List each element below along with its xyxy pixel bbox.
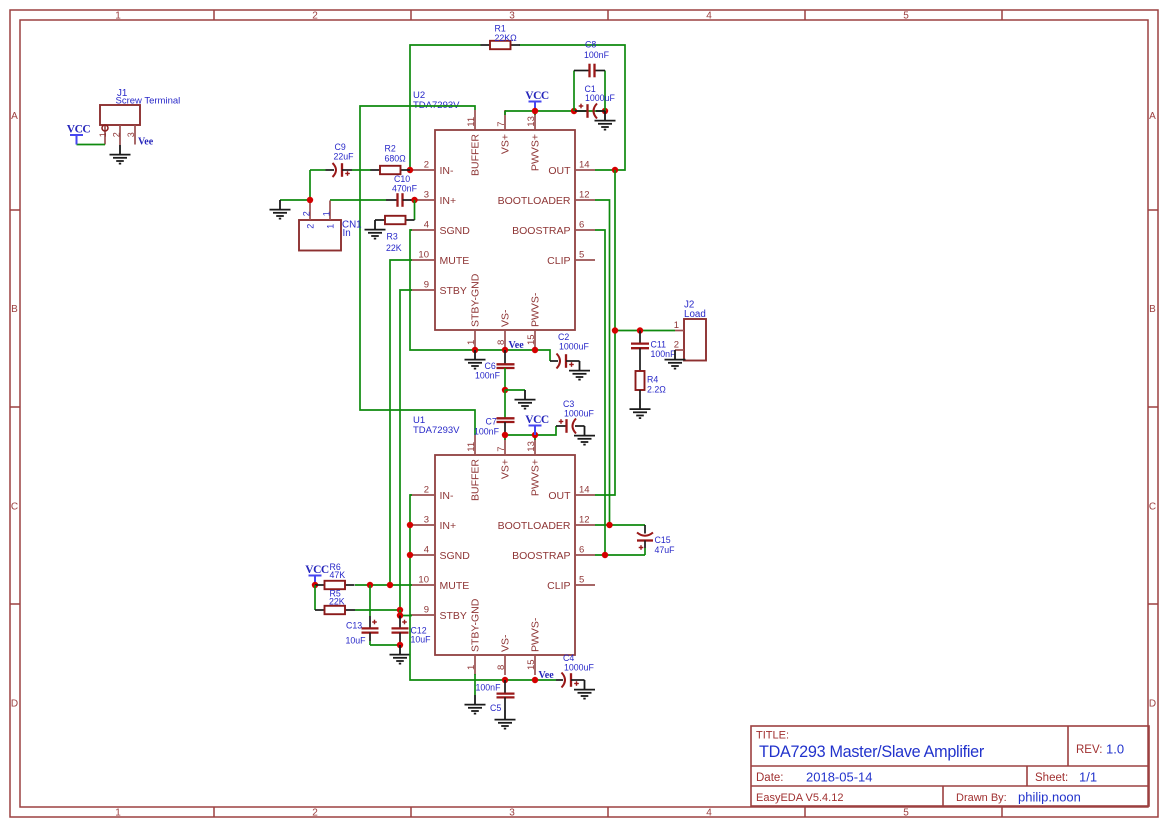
junction C1- node (602, 108, 608, 114)
svg-text:REV:: REV: (1076, 744, 1102, 756)
svg-text:R3: R3 (387, 232, 398, 242)
svg-text:C15: C15 (655, 535, 671, 545)
svg-text:11: 11 (466, 442, 477, 452)
svg-text:A: A (1149, 111, 1156, 122)
pin 14 OUT of U2 (548, 160, 595, 177)
svg-text:VS-: VS- (500, 634, 512, 652)
svg-text:470nF: 470nF (392, 184, 418, 194)
svg-text:1: 1 (674, 320, 679, 331)
wire STBY drop to U1 pin9 (400, 610, 412, 616)
wire IN+ from CN1 (330, 199, 386, 201)
pin 6 BOOSTRAP of U1 (512, 545, 595, 562)
pin 8 VS- of U2 (496, 309, 512, 350)
pin 13 PWVS+ of U2 (526, 110, 542, 171)
capacitor C11 100nF (631, 331, 676, 372)
wire R5 to STBY node (355, 609, 400, 611)
junction C13 top node (367, 582, 373, 588)
svg-text:TITLE:: TITLE: (756, 730, 789, 742)
svg-text:100nF: 100nF (584, 50, 610, 60)
wire Vee to ground (505, 389, 525, 391)
svg-text:47K: 47K (330, 570, 346, 580)
svg-text:SGND: SGND (440, 550, 471, 562)
svg-text:BOOTLOADER: BOOTLOADER (498, 520, 571, 532)
wire VCC net U2 (505, 110, 605, 112)
svg-text:1/1: 1/1 (1079, 770, 1097, 785)
svg-text:14: 14 (579, 485, 590, 496)
capacitor C5 100nF (476, 680, 515, 713)
svg-text:C7: C7 (486, 417, 497, 427)
title block (751, 726, 1149, 806)
svg-text:PWVS+: PWVS+ (530, 459, 542, 496)
junction R5-STBY node (397, 607, 403, 613)
wire U1 pin7 link (504, 435, 506, 440)
pin 7 VS+ of U2 (496, 110, 512, 154)
pin 1 STBY-GND of U1 (466, 598, 482, 675)
svg-text:2: 2 (306, 224, 316, 229)
svg-text:10uF: 10uF (411, 635, 432, 645)
pin 11 BUFFER of U1 (466, 435, 482, 501)
svg-text:PWVS-: PWVS- (530, 292, 542, 327)
capacitor C8 100nF (574, 40, 610, 78)
pin 3 of J1 (126, 125, 136, 145)
svg-text:2: 2 (424, 160, 429, 171)
capacitor C10 470nF (386, 174, 418, 207)
svg-text:1000uF: 1000uF (559, 342, 589, 352)
svg-text:TDA7293V: TDA7293V (413, 425, 460, 436)
resistor R5 22K (315, 589, 355, 615)
wire SGND-STBYGND net U2 (410, 230, 475, 350)
svg-text:C9: C9 (335, 142, 346, 152)
pin 8 VS- of U1 (496, 634, 512, 675)
wire MUTE net (390, 260, 412, 585)
svg-text:12: 12 (579, 190, 590, 201)
pin 5 CLIP of U2 (547, 250, 595, 267)
svg-text:Load: Load (684, 309, 706, 320)
svg-text:In: In (343, 228, 351, 239)
wire OUT net vertical (595, 170, 615, 495)
wire U1 pin1 ground drop (474, 674, 476, 695)
svg-text:100nF: 100nF (474, 427, 500, 437)
svg-text:CLIP: CLIP (547, 255, 570, 267)
svg-text:EasyEDA V5.4.12: EasyEDA V5.4.12 (756, 792, 843, 804)
junction U1 pin13 node (532, 432, 538, 438)
svg-text:IN+: IN+ (440, 520, 457, 532)
VCC power flag U2 (525, 90, 549, 111)
svg-text:C5: C5 (490, 703, 501, 713)
svg-text:C10: C10 (394, 174, 410, 184)
pin 2 of J2 (674, 340, 684, 351)
svg-text:1: 1 (115, 11, 121, 22)
pin 9 STBY of U2 (410, 280, 467, 297)
op-amp U2 TDA7293V (413, 90, 575, 330)
svg-text:BOOTLOADER: BOOTLOADER (498, 195, 571, 207)
junction C12 top node (397, 612, 403, 618)
wire R3 to IN+ (414, 200, 416, 220)
svg-text:7: 7 (496, 446, 507, 451)
svg-text:C8: C8 (585, 40, 596, 50)
svg-text:PWVS-: PWVS- (530, 617, 542, 652)
ground R4 (630, 400, 651, 419)
pin 2 IN- of U1 (410, 485, 454, 502)
wire net R1 left (410, 45, 481, 170)
junction cap ground node (397, 642, 403, 648)
svg-text:14: 14 (579, 160, 590, 171)
pin 2 of CN1 (301, 203, 315, 229)
svg-text:2: 2 (111, 132, 121, 137)
svg-text:IN-: IN- (440, 165, 455, 177)
junction U2 pin1 node (472, 347, 478, 353)
svg-text:IN+: IN+ (440, 195, 457, 207)
wire C6 to Vee node (504, 368, 506, 390)
svg-text:22K: 22K (386, 243, 402, 253)
junction U2 pin8 node (502, 347, 508, 353)
wire net R1 right to OUT (520, 45, 626, 170)
wire U2 bottom supply (475, 350, 550, 361)
svg-text:10: 10 (418, 250, 429, 261)
capacitor C9 22uF (326, 142, 355, 177)
svg-text:Vee: Vee (509, 340, 525, 351)
svg-text:15: 15 (526, 659, 537, 670)
svg-text:8: 8 (496, 340, 507, 345)
svg-text:1.0: 1.0 (1106, 742, 1124, 757)
junction IN+ node (411, 197, 417, 203)
pin 5 CLIP of U1 (547, 575, 595, 592)
pin 15 PWVS- of U1 (526, 617, 542, 675)
svg-text:13: 13 (526, 116, 537, 127)
wire U1 input ground bus (410, 495, 556, 680)
junction VCC-pin13 (532, 108, 538, 114)
svg-text:R1: R1 (495, 24, 506, 34)
svg-text:1: 1 (466, 665, 477, 670)
resistor R3 22K (375, 216, 415, 253)
svg-text:680Ω: 680Ω (385, 154, 407, 164)
svg-text:C2: C2 (558, 332, 569, 342)
svg-text:OUT: OUT (548, 165, 571, 177)
pin 9 STBY of U1 (410, 605, 467, 622)
wire pin13 stub link (534, 111, 536, 115)
svg-text:Drawn By:: Drawn By: (956, 792, 1007, 804)
svg-text:13: 13 (526, 441, 537, 452)
wire U1 pin13 link (534, 435, 536, 440)
svg-text:4: 4 (424, 220, 429, 231)
wire Vee to C7 (504, 390, 506, 418)
pin 11 BUFFER of U2 (466, 110, 482, 176)
svg-text:VCC: VCC (67, 124, 91, 136)
wire U1 MUTE row (355, 584, 412, 586)
svg-text:5: 5 (579, 575, 584, 586)
ground U1 STBY-GND (465, 695, 486, 714)
capacitor C13 10uF (346, 585, 379, 646)
svg-text:47uF: 47uF (655, 545, 676, 555)
svg-text:5: 5 (903, 11, 909, 22)
svg-text:D: D (11, 699, 18, 710)
pin 10 MUTE of U2 (410, 250, 469, 267)
svg-text:1: 1 (115, 808, 121, 819)
junction BOOSTRAP node (602, 552, 608, 558)
capacitor C4 1000uF (556, 653, 594, 688)
svg-text:22KΩ: 22KΩ (495, 33, 518, 43)
VCC power flag J1 (67, 124, 91, 145)
ground C2 (569, 361, 590, 380)
svg-text:10: 10 (418, 575, 429, 586)
resistor R4 2.2ohm (636, 371, 667, 400)
svg-text:Date:: Date: (756, 772, 784, 784)
capacitor C12 10uF (392, 616, 432, 646)
svg-text:Sheet:: Sheet: (1035, 772, 1068, 784)
junction C1+ node (571, 108, 577, 114)
svg-text:4: 4 (706, 808, 712, 819)
wire CN1 pin2 to ground (280, 199, 310, 201)
svg-text:BOOSTRAP: BOOSTRAP (512, 550, 570, 562)
svg-text:MUTE: MUTE (440, 255, 470, 267)
svg-text:1: 1 (466, 340, 477, 345)
resistor R1 22K&#937; (481, 24, 521, 50)
wire BOOSTRAP net (595, 230, 605, 555)
pin 1 of J1 (98, 125, 108, 145)
resistor R2 680&#937; (371, 144, 411, 175)
pin 3 IN+ of U1 (410, 515, 456, 532)
pin 4 SGND of U1 (410, 545, 470, 562)
resistor R6 47K (315, 562, 355, 589)
svg-text:11: 11 (466, 117, 477, 127)
svg-text:2: 2 (312, 808, 318, 819)
svg-text:1: 1 (98, 132, 108, 137)
connector CN1 In (299, 220, 362, 251)
svg-text:100nF: 100nF (476, 683, 502, 693)
svg-text:3: 3 (509, 808, 515, 819)
wire C9 to CN1 pin2 (309, 170, 311, 200)
VCC power flag bias (305, 564, 329, 585)
capacitor C15 47uF (637, 525, 675, 555)
svg-text:STBY: STBY (440, 285, 467, 297)
op-amp U1 TDA7293V (413, 415, 575, 655)
svg-text:3: 3 (424, 515, 429, 526)
junction Vee node (502, 387, 508, 393)
connector J1 Screw Terminal (100, 88, 180, 125)
ground C4 (574, 680, 595, 699)
svg-text:R2: R2 (385, 144, 396, 154)
svg-text:C4: C4 (563, 653, 574, 663)
connector J2 Load (684, 300, 706, 361)
svg-text:4: 4 (706, 11, 712, 22)
svg-text:3: 3 (126, 132, 136, 137)
svg-text:1: 1 (321, 211, 331, 216)
svg-text:C3: C3 (563, 399, 574, 409)
svg-text:R4: R4 (647, 375, 658, 385)
wire VCC to R5 (314, 585, 316, 610)
svg-text:STBY: STBY (440, 610, 467, 622)
svg-text:C11: C11 (651, 340, 667, 350)
svg-text:B: B (1149, 304, 1156, 315)
wire VCC net U1 (505, 426, 556, 435)
wire BUFFER net U2-U1 (360, 106, 475, 435)
svg-text:5: 5 (903, 808, 909, 819)
svg-text:BUFFER: BUFFER (470, 459, 482, 501)
svg-text:IN-: IN- (440, 490, 455, 502)
pin 6 BOOSTRAP of U2 (512, 220, 595, 237)
svg-text:BOOSTRAP: BOOSTRAP (512, 225, 570, 237)
svg-text:B: B (11, 304, 18, 315)
pin 2 IN- of U2 (410, 160, 454, 177)
ground C5 (495, 710, 516, 729)
ground R3 (365, 220, 386, 239)
svg-text:100nF: 100nF (475, 371, 501, 381)
svg-text:2.2Ω: 2.2Ω (647, 385, 666, 395)
svg-text:5: 5 (579, 250, 584, 261)
svg-text:9: 9 (424, 280, 429, 291)
svg-text:2: 2 (424, 485, 429, 496)
svg-text:VCC: VCC (525, 414, 549, 426)
junction BOOTLOADER node (606, 522, 612, 528)
capacitor C7 100nF (474, 417, 515, 437)
ground U2 STBY-GND (465, 350, 486, 369)
pin 13 PWVS+ of U1 (526, 435, 542, 496)
junction C11 node (637, 327, 643, 333)
wire OUT to J2 (615, 330, 675, 332)
pin 1 of CN1 (321, 201, 335, 229)
svg-text:PWVS+: PWVS+ (530, 134, 542, 171)
pin 12 BOOTLOADER of U1 (498, 515, 595, 532)
pin 15 PWVS- of U2 (526, 292, 542, 350)
svg-text:philip.noon: philip.noon (1018, 790, 1081, 805)
wire pin7 stub link (504, 111, 506, 115)
pin 3 IN+ of U2 (410, 190, 456, 207)
ground J1 pin2 (110, 145, 131, 164)
pin 1 of J2 (674, 320, 684, 331)
wire U1 BOOTLOADER to C15 (595, 524, 645, 526)
wire VCC to J1 pin1 (77, 144, 106, 146)
svg-text:1: 1 (326, 224, 336, 229)
svg-text:CLIP: CLIP (547, 580, 570, 592)
junction OUT-J2 node (612, 327, 618, 333)
svg-text:3: 3 (424, 190, 429, 201)
svg-text:TDA7293 Master/Slave Amplifier: TDA7293 Master/Slave Amplifier (759, 743, 985, 761)
svg-text:22uF: 22uF (334, 152, 355, 162)
svg-text:SGND: SGND (440, 225, 471, 237)
junction U2 pin15 node (532, 347, 538, 353)
svg-text:C6: C6 (485, 361, 496, 371)
wire C8 right leg (604, 71, 606, 112)
svg-text:4: 4 (424, 545, 429, 556)
svg-text:D: D (1149, 699, 1156, 710)
svg-text:3: 3 (509, 11, 515, 22)
junction U1 IN+ node (407, 522, 413, 528)
junction U2 IN- node (407, 167, 413, 173)
wire C9 left (310, 169, 326, 171)
capacitor C2 1000uF (550, 332, 589, 369)
capacitor C6 100nF (475, 350, 515, 381)
VCC power flag U1 (525, 414, 549, 435)
junction VCC-R6 node (312, 582, 318, 588)
svg-text:12: 12 (579, 515, 590, 526)
pin 7 VS+ of U1 (496, 435, 512, 479)
svg-text:1000uF: 1000uF (564, 409, 594, 419)
svg-text:6: 6 (579, 220, 584, 231)
svg-text:C: C (11, 502, 18, 513)
pin 4 SGND of U2 (410, 220, 470, 237)
svg-text:A: A (11, 111, 18, 122)
svg-text:Vee: Vee (138, 137, 154, 148)
svg-text:9: 9 (424, 605, 429, 616)
ground C1 (595, 111, 616, 130)
svg-text:C13: C13 (346, 621, 362, 631)
svg-text:OUT: OUT (548, 490, 571, 502)
junction MUTE node (387, 582, 393, 588)
junction CN1 pin2 node (307, 197, 313, 203)
ground Vee mid (515, 390, 536, 409)
wire U1 SGND link (410, 554, 412, 556)
pin 10 MUTE of U1 (410, 575, 469, 592)
junction U1 pin8 node (502, 677, 508, 683)
svg-text:2: 2 (674, 340, 679, 351)
ground C12-C13 (390, 645, 411, 664)
svg-text:2: 2 (301, 211, 311, 216)
svg-text:VCC: VCC (525, 90, 549, 102)
svg-text:10uF: 10uF (346, 636, 367, 646)
wire C13 bottom to C12 bottom (370, 644, 400, 646)
wire C9 to R2 (352, 169, 371, 171)
wire STBY net (400, 290, 412, 610)
wire U1 IN+ link (410, 524, 412, 526)
wire BOOTLOADER net (595, 200, 610, 525)
svg-text:VS-: VS- (500, 309, 512, 327)
pin 14 OUT of U1 (548, 485, 595, 502)
pin 12 BOOTLOADER of U2 (498, 190, 595, 207)
svg-text:7: 7 (496, 121, 507, 126)
svg-text:2: 2 (312, 11, 318, 22)
ground input (270, 200, 291, 219)
svg-text:STBY-GND: STBY-GND (470, 273, 482, 327)
ground C3 (574, 426, 595, 445)
capacitor C3 1000uF (556, 399, 594, 434)
svg-text:1000uF: 1000uF (585, 93, 615, 103)
svg-text:2018-05-14: 2018-05-14 (806, 770, 873, 785)
wire U1 BOOSTRAP to C15 (595, 554, 645, 556)
svg-text:BUFFER: BUFFER (470, 134, 482, 176)
wire C8 left leg (573, 71, 575, 112)
svg-text:8: 8 (496, 665, 507, 670)
capacitor C1 1000uF (575, 84, 615, 119)
svg-text:Vee: Vee (539, 670, 555, 681)
svg-text:Screw Terminal: Screw Terminal (116, 96, 181, 107)
svg-text:VS+: VS+ (500, 459, 512, 479)
ground J2 pin2 (665, 350, 686, 369)
svg-text:15: 15 (526, 334, 537, 345)
junction U1 SGND node (407, 552, 413, 558)
pin 1 STBY-GND of U2 (466, 273, 482, 350)
svg-text:100nF: 100nF (651, 349, 677, 359)
junction U1 pin7 node (502, 432, 508, 438)
svg-text:1000uF: 1000uF (564, 663, 594, 673)
svg-text:VS+: VS+ (500, 134, 512, 154)
svg-text:6: 6 (579, 545, 584, 556)
svg-text:STBY-GND: STBY-GND (470, 598, 482, 652)
pin 2 of J1 (111, 125, 121, 145)
junction U2 OUT node (612, 167, 618, 173)
svg-text:VCC: VCC (305, 564, 329, 576)
svg-text:C: C (1149, 502, 1156, 513)
svg-text:22K: 22K (329, 597, 345, 607)
svg-text:MUTE: MUTE (440, 580, 470, 592)
junction U1 pin15 node (532, 677, 538, 683)
